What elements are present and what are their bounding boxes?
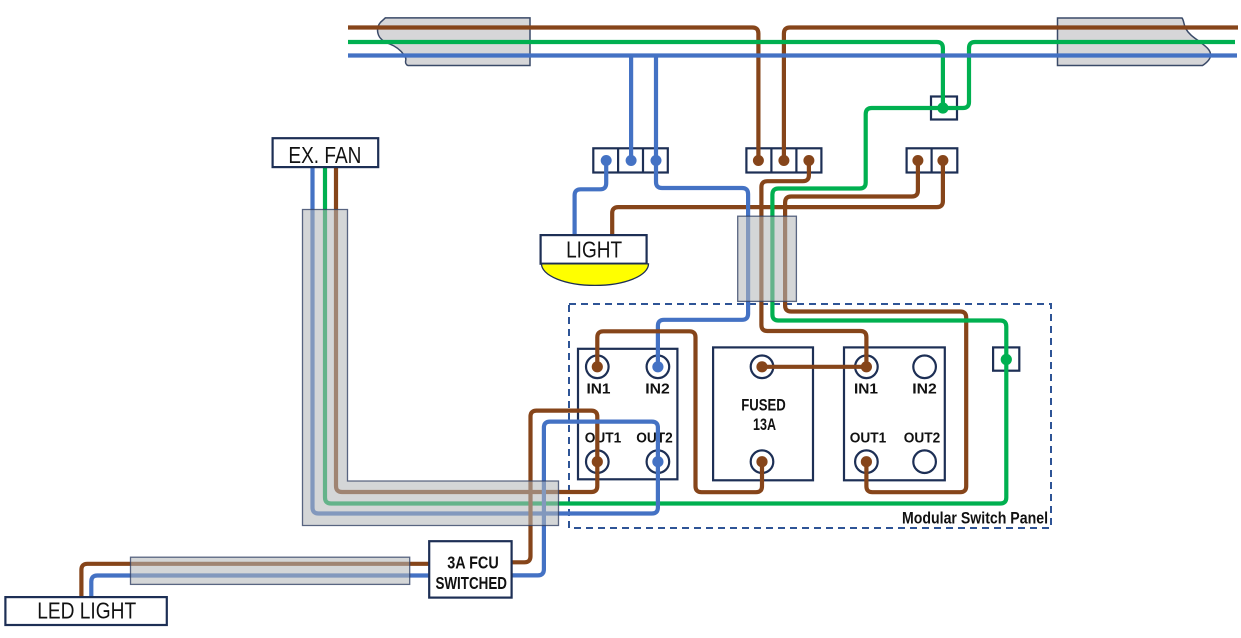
svg-text:EX. FAN: EX. FAN (288, 142, 361, 168)
svg-text:13A: 13A (753, 416, 776, 434)
svg-text:LIGHT: LIGHT (566, 237, 622, 263)
svg-text:FUSED: FUSED (741, 396, 786, 414)
svg-text:IN1: IN1 (587, 382, 611, 398)
svg-text:OUT1: OUT1 (585, 431, 622, 447)
svg-text:OUT2: OUT2 (636, 431, 673, 447)
svg-text:Modular Switch Panel: Modular Switch Panel (902, 509, 1048, 527)
svg-text:IN2: IN2 (912, 382, 937, 398)
svg-text:IN1: IN1 (854, 382, 878, 398)
svg-text:OUT2: OUT2 (904, 431, 941, 447)
svg-text:LED LIGHT: LED LIGHT (37, 598, 136, 624)
svg-text:SWITCHED: SWITCHED (435, 573, 507, 593)
svg-text:OUT1: OUT1 (850, 431, 887, 447)
svg-text:3A FCU: 3A FCU (447, 552, 499, 572)
svg-text:IN2: IN2 (645, 382, 670, 398)
